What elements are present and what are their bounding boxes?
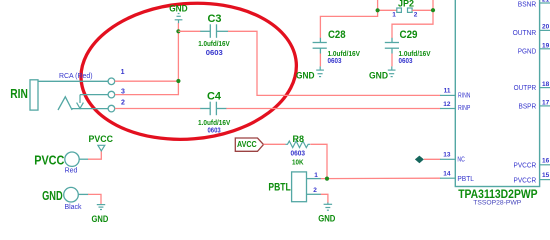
svg-text:C29: C29	[400, 29, 418, 41]
svg-text:2: 2	[414, 12, 418, 19]
jack switch arrow	[77, 95, 84, 109]
svg-text:PBTL: PBTL	[457, 176, 474, 183]
pin 21 stub BSNR	[540, 2, 550, 4]
ground GND top (inverted)	[175, 14, 183, 24]
pin 18 stub	[540, 87, 550, 89]
jack tip spring contact	[58, 97, 72, 110]
svg-text:TSSOP28-PWP: TSSOP28-PWP	[473, 200, 521, 207]
svg-text:2: 2	[121, 100, 125, 107]
connector GND banana	[64, 187, 79, 202]
pin 17 stub	[540, 105, 550, 107]
svg-text:AVCC: AVCC	[237, 140, 257, 149]
svg-text:OUTPR: OUTPR	[514, 85, 537, 92]
svg-text:10K: 10K	[292, 157, 304, 166]
wire AVCC rail top	[320, 0, 396, 38]
pin 14 stub	[440, 177, 455, 179]
svg-text:1.0ufd/16V: 1.0ufd/16V	[399, 51, 431, 58]
svg-text:GND: GND	[369, 71, 388, 81]
svg-text:RINN: RINN	[458, 92, 470, 99]
connector J1 RCA jack body	[30, 80, 38, 110]
pin 19 stub	[540, 48, 550, 50]
svg-text:1.0ufd/16V: 1.0ufd/16V	[198, 120, 231, 127]
wire pin1 to node	[115, 80, 179, 82]
power symbol PVCC	[98, 145, 105, 151]
wire C3 to RINN	[228, 31, 441, 95]
capacitor C3	[200, 24, 228, 38]
connector PVCC banana	[65, 152, 79, 166]
svg-text:1: 1	[314, 172, 318, 179]
header PBTL body	[292, 172, 307, 202]
svg-text:12: 12	[443, 101, 451, 108]
svg-text:GND: GND	[169, 4, 188, 14]
pin 12 stub	[440, 108, 455, 110]
svg-text:2: 2	[313, 187, 317, 194]
wire header pin1 to IC PBTL	[321, 177, 441, 179]
svg-text:RIN: RIN	[10, 86, 28, 101]
junction at pin1 node	[176, 79, 180, 83]
svg-text:C4: C4	[207, 91, 222, 103]
jack pin 2 wire	[72, 108, 108, 110]
svg-text:C28: C28	[328, 29, 346, 41]
svg-text:GND: GND	[296, 71, 315, 81]
svg-text:17: 17	[542, 100, 550, 107]
svg-text:JP2: JP2	[398, 0, 414, 9]
wire header pin2 to gnd	[321, 194, 328, 203]
wire PVCC connector to power	[88, 151, 101, 159]
jack pin 1 circle	[108, 78, 115, 85]
wire vertical gnd node	[177, 23, 179, 81]
svg-text:16: 16	[542, 158, 550, 165]
jack pin 3 wire	[80, 94, 108, 96]
svg-text:18: 18	[542, 81, 550, 88]
pin 13 stub	[440, 158, 455, 160]
svg-text:20: 20	[542, 24, 550, 31]
svg-text:1.0ufd/16V: 1.0ufd/16V	[328, 51, 361, 58]
wire node to C3	[178, 30, 200, 32]
svg-text:Black: Black	[64, 204, 82, 211]
pin 20 stub	[540, 29, 550, 31]
junction at C3 gnd node	[176, 29, 180, 33]
header pin 2 stub	[307, 193, 322, 195]
ground GND C28	[316, 66, 324, 76]
no-connect marker pin 13	[415, 156, 424, 164]
op-amp U1 TPA3113D2PWP body	[455, 0, 539, 187]
wire pin2 to C4	[115, 108, 201, 110]
svg-text:21: 21	[542, 0, 550, 4]
svg-text:PVCC: PVCC	[34, 153, 65, 168]
svg-text:0603: 0603	[328, 58, 342, 65]
capacitor C29	[385, 38, 399, 54]
svg-text:19: 19	[542, 42, 550, 49]
svg-text:PVCC: PVCC	[89, 134, 114, 145]
resistor R8	[286, 141, 311, 148]
wire NC to pin13	[424, 158, 441, 160]
svg-text:BSNR: BSNR	[518, 2, 536, 9]
pin 11 stub	[440, 94, 455, 96]
junction R8/header/IC	[325, 177, 329, 181]
svg-text:Red: Red	[65, 167, 78, 174]
svg-text:NC: NC	[457, 156, 465, 163]
capacitor C28	[313, 38, 327, 54]
svg-text:14: 14	[443, 170, 451, 177]
svg-text:1: 1	[392, 11, 396, 18]
junction JP2/C29	[431, 8, 435, 12]
capacitor C4	[200, 102, 226, 116]
svg-text:0603: 0603	[399, 58, 413, 65]
svg-text:13: 13	[443, 151, 451, 158]
svg-text:RCA (Red): RCA (Red)	[59, 73, 93, 80]
svg-text:BSPR: BSPR	[519, 104, 537, 111]
jumper JP2	[397, 8, 412, 12]
wire AVCC to R8	[264, 143, 286, 145]
svg-text:C3: C3	[208, 13, 222, 25]
svg-text:0603: 0603	[206, 50, 223, 57]
annotation ellipse	[76, 0, 302, 148]
pin 15 stub	[540, 179, 550, 181]
ground GND PBTL	[324, 203, 333, 211]
svg-text:GND: GND	[92, 214, 109, 224]
svg-text:11: 11	[444, 88, 451, 95]
jack pin 3 circle	[108, 91, 115, 98]
PVCC connector stub	[79, 158, 88, 160]
junction AVCC/JP2/C28	[376, 8, 380, 12]
wire GND connector to ground	[88, 194, 101, 204]
ground GND C29	[388, 66, 396, 76]
svg-text:1.0ufd/16V: 1.0ufd/16V	[198, 41, 230, 48]
jack pin 2 circle	[108, 105, 115, 112]
svg-text:OUTNR: OUTNR	[513, 30, 537, 37]
svg-text:GND: GND	[42, 188, 63, 203]
svg-text:PGND: PGND	[518, 48, 536, 55]
svg-text:R8: R8	[293, 134, 305, 145]
GND connector stub	[78, 193, 88, 195]
svg-text:PBTL: PBTL	[268, 182, 291, 194]
svg-text:RINP: RINP	[458, 105, 471, 112]
pin 16 stub	[540, 164, 550, 166]
wire C29 to gnd	[391, 54, 393, 67]
svg-text:PVCCR: PVCCR	[514, 177, 537, 184]
svg-text:GND: GND	[318, 214, 336, 224]
svg-text:PVCCR: PVCCR	[514, 163, 537, 170]
jack pin 1 wire	[38, 80, 108, 82]
header pin 1 stub	[307, 178, 322, 180]
svg-text:15: 15	[542, 172, 550, 179]
wire JP2 pin2 to C29	[412, 9, 433, 11]
wire C4 to RINP	[226, 108, 440, 110]
wire C29 riser	[392, 0, 433, 38]
wire R8 to PBTL node	[310, 144, 327, 178]
svg-text:0603: 0603	[208, 127, 221, 134]
power flag AVCC	[235, 138, 263, 151]
ground GND lower left	[97, 205, 105, 210]
wire pin3 to node	[115, 81, 179, 94]
wire C28 to gnd	[319, 54, 321, 67]
svg-text:1: 1	[121, 69, 125, 76]
